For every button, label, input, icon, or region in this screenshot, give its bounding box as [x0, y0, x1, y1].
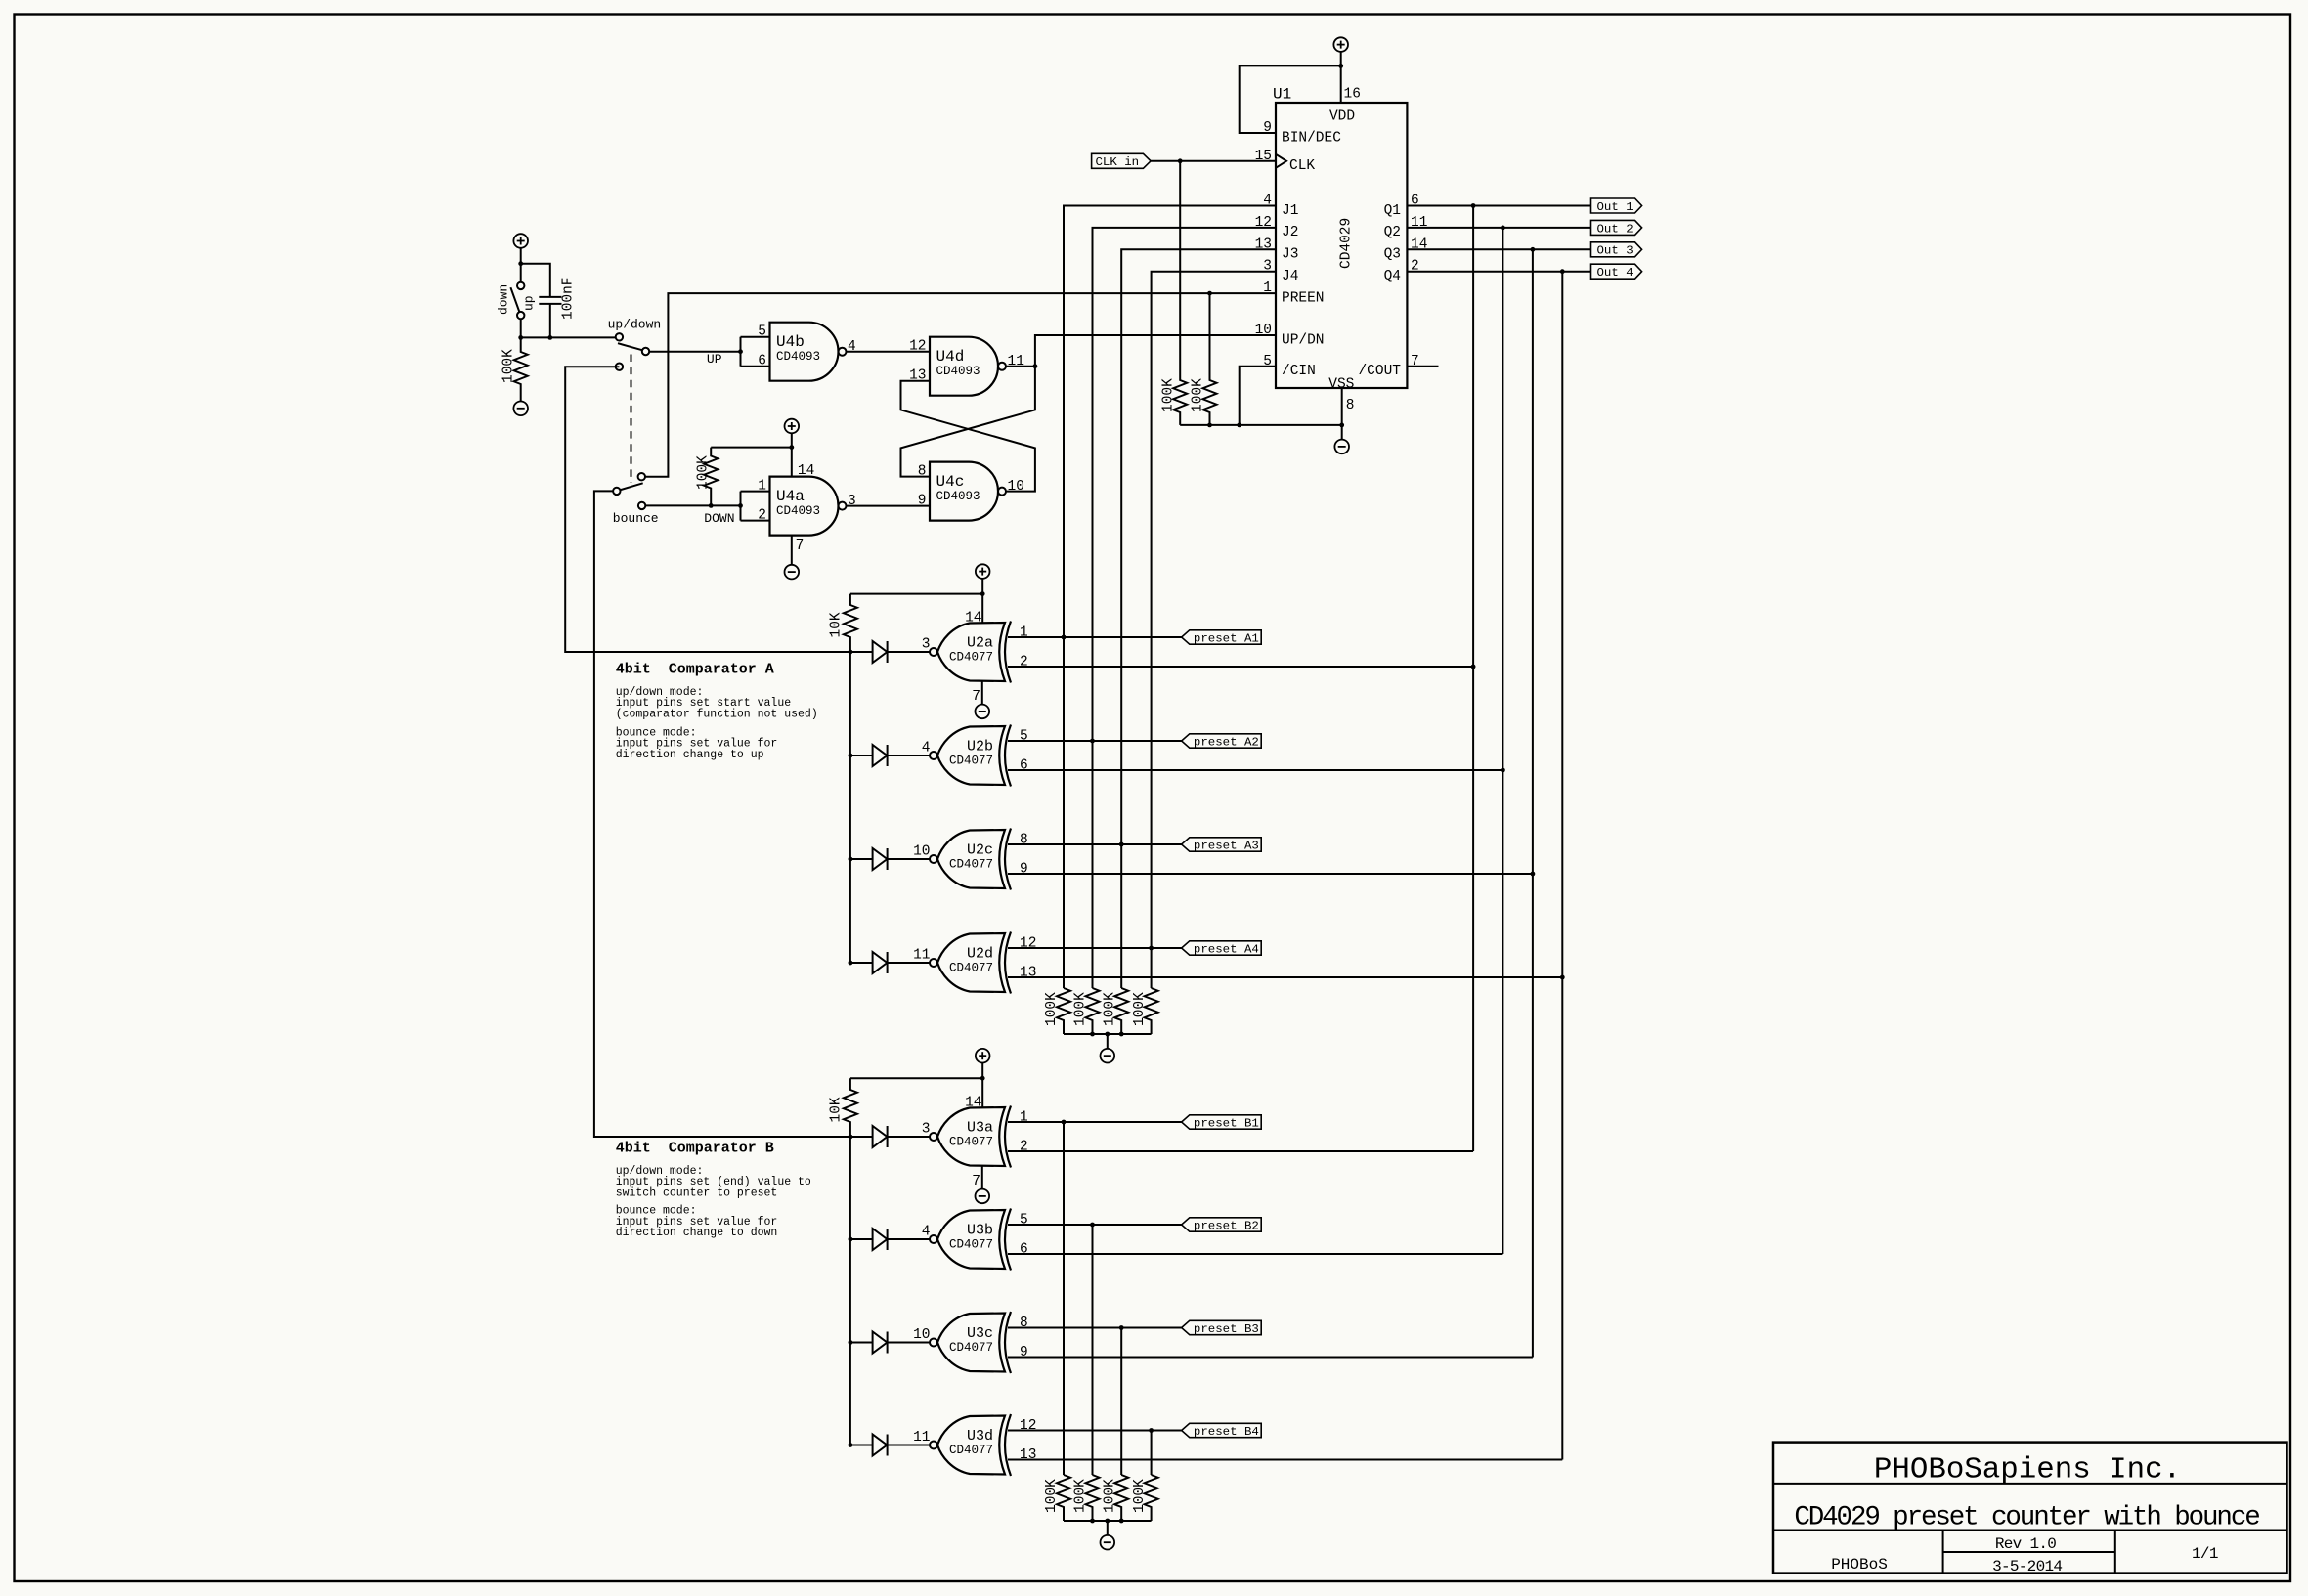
wire J3 to pulldown — [1120, 844, 1122, 988]
svg-text:CD4093: CD4093 — [776, 350, 820, 364]
svg-text:CD4077: CD4077 — [949, 858, 993, 872]
svg-text:100K: 100K — [501, 349, 517, 383]
wire U4d.11 out to UP/DN — [1006, 335, 1276, 367]
junction (U4b inputs) — [738, 349, 743, 354]
power - (comparator A pulldowns) — [1101, 1049, 1115, 1063]
svg-text:100K: 100K — [1132, 992, 1148, 1026]
wire + to U3a pin14 — [981, 1063, 983, 1108]
wire U4a.3 to U4c.9 — [847, 505, 931, 507]
svg-text:4bit Comparator A: 4bit Comparator A — [616, 662, 774, 678]
resistor 100K pulldown B2 — [1086, 1475, 1100, 1521]
wire + to 10K — [850, 1077, 982, 1079]
junction Q4/comparator A — [1560, 975, 1565, 980]
svg-text:7: 7 — [972, 1174, 980, 1189]
wire U2a pin7 to - — [981, 681, 983, 705]
svg-text:1: 1 — [1020, 625, 1028, 641]
svg-text:Out 2: Out 2 — [1597, 222, 1633, 236]
switch S2b bounce (pole left) — [638, 473, 645, 480]
svg-text:(comparator function not used): (comparator function not used) — [616, 708, 818, 720]
power + (comparator A) — [976, 564, 990, 579]
svg-text:preset B3: preset B3 — [1194, 1322, 1259, 1336]
svg-text:100K: 100K — [1190, 378, 1205, 412]
wire U2c top input to flag — [1008, 843, 1182, 845]
junction (switch/res/cap row) — [518, 335, 523, 340]
power + (comparator B) — [976, 1049, 990, 1063]
svg-text:CD4077: CD4077 — [949, 1136, 993, 1149]
svg-text:10K: 10K — [829, 1097, 845, 1122]
svg-text:U3a: U3a — [967, 1120, 993, 1137]
U4b input bracket pins 5-6 — [741, 336, 770, 338]
wire S2b top throw to PREEN — [645, 293, 1276, 477]
wire preset B2 to pulldown — [1092, 1225, 1094, 1475]
gang dashed link S2a-S2b — [631, 355, 632, 484]
wire junction row to up/down switch — [521, 336, 616, 338]
svg-text:100K: 100K — [1161, 378, 1177, 412]
svg-text:preset A3: preset A3 — [1194, 840, 1259, 853]
svg-text:up/down: up/down — [608, 318, 662, 332]
svg-text:5: 5 — [1020, 1213, 1028, 1229]
svg-text:12: 12 — [1020, 1418, 1036, 1434]
wire S2a common to U4b inputs (UP) — [649, 351, 740, 353]
diode U2c input — [873, 848, 888, 870]
wire bus to diode U3c — [850, 1342, 873, 1344]
flag Out 4 — [1591, 264, 1642, 279]
wire + to 10K — [850, 593, 982, 595]
wire U3b bottom input to Q2 — [1008, 1253, 1502, 1255]
diode U2d input — [873, 952, 888, 973]
svg-text:16: 16 — [1344, 87, 1361, 103]
flag Out 3 — [1591, 242, 1642, 257]
flag Out 2 — [1591, 220, 1642, 235]
wire Q4 vertical to comparators — [1561, 272, 1563, 1460]
svg-text:U2d: U2d — [967, 946, 993, 963]
junction Q1/comparator A — [1471, 665, 1476, 669]
resistor 100K pulldown A1 — [1057, 988, 1070, 1034]
svg-text:13: 13 — [1020, 1447, 1036, 1463]
svg-text:U3c: U3c — [967, 1325, 993, 1342]
svg-text:J3: J3 — [1282, 247, 1298, 263]
power - (U1 VSS) — [1334, 440, 1349, 454]
svg-text:PHOBoSapiens Inc.: PHOBoSapiens Inc. — [1874, 1453, 2181, 1488]
junction (CLK pulldown tap) — [1178, 158, 1183, 163]
wire J1 to pulldown — [1063, 637, 1065, 988]
junction J1/preset A1 — [1062, 635, 1067, 640]
xnor U2b CD4077 — [937, 726, 1005, 785]
power + (U4a pin14) — [785, 419, 800, 434]
svg-text:6: 6 — [1020, 758, 1028, 774]
svg-text:4: 4 — [848, 339, 856, 355]
power + (U1 VDD) — [1333, 37, 1348, 52]
svg-text:4bit Comparator B: 4bit Comparator B — [616, 1141, 774, 1157]
resistor 100K pulldown A4 — [1145, 988, 1158, 1034]
wire bus to diode U2d — [850, 962, 873, 964]
svg-text:CLK in: CLK in — [1096, 155, 1140, 169]
junction (VSS / rail) — [1339, 423, 1344, 428]
junction rail A r3 — [1119, 1032, 1124, 1037]
wire Q1 vertical to comparators — [1472, 206, 1474, 1152]
switch S1 up/down selector (left pole) — [517, 282, 524, 289]
xnor U3d CD4077 — [937, 1416, 1005, 1475]
wire VSS pin8 to - — [1341, 388, 1343, 440]
svg-text:UP: UP — [707, 352, 722, 367]
svg-text:100K: 100K — [696, 455, 712, 490]
junction bus/diode U2b — [849, 754, 853, 758]
wire U2a bottom input to Q1 — [1008, 666, 1473, 668]
resistor 10K pullup B — [844, 1078, 857, 1137]
wire Q3 vertical to comparators — [1532, 249, 1534, 1357]
wire Q1 to Out 1 — [1407, 205, 1590, 207]
svg-text:Q1: Q1 — [1384, 203, 1401, 219]
junction bus/diode U3b — [849, 1237, 853, 1242]
svg-text:7: 7 — [796, 539, 805, 554]
svg-text:Rev 1.0: Rev 1.0 — [1995, 1535, 2056, 1553]
junction (feeder/10K/bus B) — [849, 1135, 853, 1140]
junction J3/preset A3 — [1119, 842, 1124, 847]
junction bus/diode U3d — [849, 1443, 853, 1447]
svg-text:3: 3 — [922, 1122, 931, 1138]
svg-text:100K: 100K — [1073, 1479, 1089, 1513]
flag preset A1 — [1182, 630, 1262, 644]
svg-text:Out 1: Out 1 — [1597, 200, 1633, 214]
junction bus/diode U2d — [849, 961, 853, 966]
svg-text:100K: 100K — [1132, 1479, 1148, 1513]
wire Q4 to Out 4 — [1407, 271, 1590, 273]
power - (U2a pin7) — [976, 705, 990, 719]
svg-text:U3d: U3d — [967, 1428, 993, 1445]
xnor U2d CD4077 — [937, 933, 1005, 992]
flag preset B3 — [1182, 1320, 1262, 1334]
wire diode to U3c out — [888, 1342, 930, 1344]
svg-text:9: 9 — [1020, 862, 1028, 878]
wire U3d top input to flag — [1008, 1430, 1182, 1432]
wire Q2 to Out 2 — [1407, 227, 1590, 229]
junction (feeder/10K/bus A) — [849, 650, 853, 655]
svg-text:100K: 100K — [1073, 992, 1089, 1026]
svg-text:1: 1 — [1263, 280, 1272, 296]
resistor 100K (CLK pulldown) — [1173, 161, 1187, 425]
svg-text:100nF: 100nF — [561, 277, 577, 320]
wire bus to diode U2c — [850, 858, 873, 860]
svg-text:U1: U1 — [1273, 86, 1291, 104]
svg-text:Q3: Q3 — [1384, 247, 1401, 263]
wire bus to diode U3b — [850, 1238, 873, 1240]
wire + down to U4a pin 14 — [791, 433, 793, 476]
svg-text:U3b: U3b — [967, 1223, 993, 1239]
wire rail B to - — [1107, 1521, 1109, 1535]
svg-text:6: 6 — [1020, 1242, 1028, 1258]
wire + to switch/cap junction — [520, 248, 522, 282]
IC U1 CD4029 body — [1276, 103, 1407, 388]
junction (10K feed B) — [980, 1076, 985, 1081]
wire Q2 vertical to comparators — [1502, 228, 1503, 1254]
wire J3 bus — [1121, 249, 1276, 844]
junction Q2 branch — [1501, 226, 1505, 231]
input bus A — [849, 652, 851, 963]
svg-text:11: 11 — [1008, 354, 1024, 369]
capacitor 100nF — [539, 296, 561, 298]
wire bus to diode U2b — [850, 755, 873, 756]
svg-text:11: 11 — [913, 1430, 930, 1445]
wire U3a pin7 to - — [981, 1166, 983, 1189]
svg-text:preset B2: preset B2 — [1194, 1220, 1259, 1233]
wire S2a throw B down to comparator A feeder — [565, 367, 850, 652]
svg-text:9: 9 — [1020, 1345, 1028, 1360]
svg-text:8: 8 — [1020, 833, 1028, 848]
svg-text:100K: 100K — [1102, 1479, 1117, 1513]
svg-text:CD4093: CD4093 — [936, 365, 980, 378]
wire J1 bus — [1064, 206, 1276, 638]
power - (comparator B pulldowns) — [1101, 1535, 1115, 1550]
svg-text:8: 8 — [1346, 398, 1355, 413]
svg-text:U4c: U4c — [936, 473, 965, 491]
svg-text:4: 4 — [922, 1225, 931, 1240]
svg-text:BIN/DEC: BIN/DEC — [1282, 130, 1341, 146]
junction (PREEN pulldown tap) — [1207, 291, 1212, 296]
svg-text:10K: 10K — [829, 612, 845, 637]
wire 100K top to + — [711, 447, 792, 449]
junction (VDD/BINDEC) — [1338, 64, 1343, 68]
ground rail comparator B — [1064, 1520, 1152, 1522]
junction J2/preset A2 — [1090, 739, 1095, 744]
svg-text:CD4093: CD4093 — [776, 504, 820, 518]
resistor 100K (PREEN pulldown) — [1203, 293, 1217, 425]
wire U3a bottom input to Q1 — [1008, 1150, 1473, 1152]
junction (plus/cap) — [518, 261, 523, 266]
wire bus to diode U3d — [850, 1445, 873, 1446]
svg-text:switch counter to preset: switch counter to preset — [616, 1186, 778, 1199]
xnor U2c CD4077 — [937, 830, 1005, 888]
stub /COUT pin7 — [1407, 366, 1438, 367]
svg-text:3: 3 — [922, 637, 931, 653]
flag preset A2 — [1182, 734, 1262, 748]
resistor 100K pulldown A3 — [1114, 988, 1128, 1034]
svg-text:10: 10 — [1255, 323, 1272, 338]
wire U2c bottom input to Q3 — [1008, 873, 1533, 875]
svg-text:100K: 100K — [1044, 992, 1060, 1026]
svg-text:2: 2 — [1020, 655, 1028, 670]
resistor 100K pulldown B4 — [1145, 1475, 1158, 1521]
wire diode to U3d out — [888, 1445, 930, 1446]
svg-text:U2b: U2b — [967, 739, 993, 755]
diode U3c input — [873, 1332, 888, 1354]
svg-text:1/1: 1/1 — [2192, 1545, 2218, 1563]
nand U4d CD4093 — [930, 337, 998, 396]
wire switch to junction row — [520, 319, 522, 337]
title block frame — [1773, 1443, 2287, 1574]
svg-text:CD4077: CD4077 — [949, 651, 993, 665]
junction rail A r2 — [1090, 1032, 1095, 1037]
wire U3c top input to flag — [1008, 1327, 1182, 1329]
wire J2 bus — [1093, 228, 1277, 741]
svg-text:3: 3 — [848, 494, 856, 509]
svg-text:CD4077: CD4077 — [949, 1444, 993, 1457]
junction (100K bottom / DOWN) — [709, 503, 714, 508]
svg-text:11: 11 — [913, 948, 930, 964]
svg-text:direction change to down: direction change to down — [616, 1227, 778, 1239]
wire preset B1 to pulldown — [1063, 1122, 1065, 1475]
junction (U4a inputs) — [738, 503, 743, 508]
svg-text:preset A2: preset A2 — [1194, 736, 1259, 750]
junction J4/preset A4 — [1149, 946, 1154, 951]
diode U3b input — [873, 1229, 888, 1250]
svg-text:CD4077: CD4077 — [949, 1238, 993, 1252]
junction rail A minus — [1105, 1032, 1110, 1037]
input bus B — [849, 1137, 851, 1445]
resistor 10K pullup A — [844, 594, 857, 652]
svg-text:Q2: Q2 — [1384, 225, 1401, 240]
wire diode to U2d out — [888, 962, 930, 964]
wire S2b pole down to comparator B feeder — [594, 491, 850, 1137]
wire U3b top input to flag — [1008, 1224, 1182, 1226]
power + supply (switch feed) — [513, 234, 528, 248]
diode U2a input — [873, 641, 888, 663]
U4a pin 7 wire to - — [791, 536, 793, 565]
wire U2a top input to flag — [1008, 636, 1182, 638]
wire S2b bottom throw to U4a inputs (DOWN) — [645, 504, 740, 506]
switch S2a up/down (throws left, common right) — [616, 333, 623, 340]
svg-text:U4a: U4a — [776, 488, 805, 505]
junction Q4 branch — [1560, 269, 1565, 274]
svg-text:preset B4: preset B4 — [1194, 1425, 1259, 1439]
resistor 100K pulldown A2 — [1086, 988, 1100, 1034]
wire U2d top input to flag — [1008, 947, 1182, 949]
wire U3a top input to flag — [1008, 1121, 1182, 1123]
resistor 100K pulldown (switch) — [514, 337, 528, 401]
ground rail comparator A — [1064, 1033, 1152, 1035]
wire U3d bottom input to Q4 — [1008, 1459, 1562, 1461]
junction (10K feed A) — [980, 591, 985, 596]
svg-text:up: up — [522, 295, 537, 311]
junction Q3 branch — [1531, 247, 1536, 252]
svg-text:/CIN: /CIN — [1282, 364, 1316, 379]
svg-text:preset A4: preset A4 — [1194, 943, 1259, 957]
wire rail A to - — [1107, 1034, 1109, 1049]
power - (U3a pin7) — [976, 1189, 990, 1204]
svg-text:10: 10 — [1008, 479, 1024, 495]
junction (U4d out) — [1033, 364, 1038, 368]
wire U3c bottom input to Q3 — [1008, 1357, 1533, 1359]
svg-text:VDD: VDD — [1329, 108, 1355, 124]
svg-text:UP/DN: UP/DN — [1282, 332, 1325, 348]
diode U3a input — [873, 1126, 888, 1147]
svg-text:Q4: Q4 — [1384, 269, 1401, 284]
wire U2b top input to flag — [1008, 740, 1182, 742]
svg-text:9: 9 — [1263, 120, 1272, 136]
svg-text:U4d: U4d — [936, 348, 965, 366]
nand U4a CD4093 — [770, 477, 839, 536]
svg-text:100K: 100K — [1102, 992, 1117, 1026]
svg-text:U4b: U4b — [776, 333, 805, 351]
wire diode to U2a out — [888, 651, 930, 653]
junction preset B3 pulldown — [1119, 1325, 1124, 1330]
wire BIN/DEC tie to VDD — [1240, 65, 1341, 133]
svg-text:CD4093: CD4093 — [936, 490, 980, 503]
xnor U2a CD4077 — [937, 623, 1005, 681]
flag CLK in — [1092, 153, 1152, 168]
svg-text:12: 12 — [1020, 936, 1036, 952]
U4a input bracket pins 1-2 — [741, 491, 770, 493]
svg-text:preset B1: preset B1 — [1194, 1117, 1259, 1131]
svg-text:preset A1: preset A1 — [1194, 632, 1259, 646]
wire U4d.11 cross to U4c.8 — [901, 367, 1035, 477]
junction rail B r2 — [1090, 1519, 1095, 1524]
flag preset B4 — [1182, 1423, 1262, 1437]
resistor 100K pullup (DOWN net) — [704, 448, 718, 506]
power - (below 100K) — [513, 402, 528, 416]
svg-text:U2c: U2c — [967, 842, 993, 859]
svg-text:/COUT: /COUT — [1358, 364, 1401, 379]
power - (U4a pin7) — [785, 565, 800, 580]
svg-text:CD4077: CD4077 — [949, 1341, 993, 1355]
wire J4 to pulldown — [1151, 948, 1153, 988]
nand U4b CD4093 — [770, 323, 839, 381]
junction preset B4 pulldown — [1149, 1428, 1154, 1433]
wire CLK in to CLK pin — [1151, 160, 1276, 162]
junction rail B r3 — [1119, 1519, 1124, 1524]
svg-text:1: 1 — [1020, 1110, 1028, 1126]
flag preset B1 — [1182, 1115, 1262, 1129]
svg-text:100K: 100K — [1044, 1479, 1060, 1513]
svg-text:Out 3: Out 3 — [1597, 244, 1633, 258]
junction (/CIN / rail) — [1237, 423, 1241, 428]
junction Q1 branch — [1471, 203, 1476, 208]
junction rail B minus — [1105, 1519, 1110, 1524]
ground rail under U1 — [1180, 424, 1342, 426]
svg-text:direction change to up: direction change to up — [616, 749, 764, 761]
svg-text:10: 10 — [913, 844, 930, 860]
svg-text:bounce: bounce — [613, 511, 659, 526]
wire U2b bottom input to Q2 — [1008, 769, 1502, 771]
svg-text:PREEN: PREEN — [1282, 290, 1325, 306]
wire J2 to pulldown — [1092, 741, 1094, 988]
flag Out 1 — [1591, 198, 1642, 213]
flag preset B2 — [1182, 1218, 1262, 1231]
xnor U3c CD4077 — [937, 1314, 1005, 1372]
svg-text:CD4029: CD4029 — [1339, 218, 1355, 269]
svg-text:CD4077: CD4077 — [949, 755, 993, 768]
junction (cap bottom) — [547, 335, 552, 340]
wire U2d bottom input to Q4 — [1008, 976, 1562, 978]
wire diode to U3a out — [888, 1136, 930, 1138]
wire + to VDD pin16 — [1340, 52, 1342, 103]
junction bus/diode U3c — [849, 1340, 853, 1345]
svg-text:5: 5 — [1020, 729, 1028, 745]
wire U4c.10 cross to U4d.13 — [901, 381, 1035, 492]
svg-text:DOWN: DOWN — [704, 511, 734, 526]
junction Q3/comparator A — [1531, 872, 1536, 877]
wire bus to diode U3a — [850, 1136, 873, 1138]
wire diode to U3b out — [888, 1238, 930, 1240]
svg-text:3-5-2014: 3-5-2014 — [1992, 1558, 2062, 1575]
wire preset B4 to pulldown — [1151, 1431, 1153, 1476]
junction preset B2 pulldown — [1090, 1223, 1095, 1228]
wire diode to U2c out — [888, 858, 930, 860]
nand U4c CD4093 — [930, 462, 998, 521]
diode U2b input — [873, 745, 888, 766]
flag preset A3 — [1182, 838, 1262, 851]
diode U3d input — [873, 1435, 888, 1456]
junction preset B1 pulldown — [1062, 1120, 1067, 1125]
svg-text:down: down — [497, 284, 511, 315]
junction bus/diode U2c — [849, 857, 853, 862]
svg-text:PHOBoS: PHOBoS — [1831, 1556, 1888, 1574]
wire diode to U2b out — [888, 755, 930, 756]
svg-text:4: 4 — [922, 741, 931, 756]
junction Q2/comparator A — [1501, 768, 1505, 773]
svg-text:J4: J4 — [1282, 269, 1298, 284]
svg-text:10: 10 — [913, 1327, 930, 1343]
wire bus to diode U2a — [850, 651, 873, 653]
